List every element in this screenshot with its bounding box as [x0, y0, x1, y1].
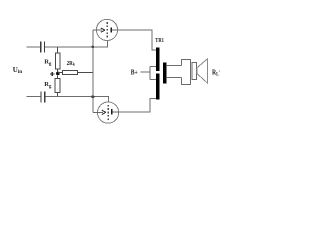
- cathode V2 (left, arrow): [93, 111, 103, 113]
- wire B+ center tap: [140, 66, 156, 79]
- wire secondary to speaker (top): [166, 65, 181, 67]
- svg-text:2Rk: 2Rk: [67, 61, 76, 67]
- transformer TR1 primary winding (upper bar): [156, 47, 160, 71]
- node C (grid rail / cathode line crossing, bottom): [91, 95, 94, 98]
- resistor 2Rk: [58, 70, 93, 74]
- speaker RL' body (outer box, open left): [181, 60, 190, 85]
- transformer TR1 secondary winding: [163, 63, 166, 84]
- node B (junction dot Rg/Rg/2Rk): [56, 72, 60, 76]
- wire top input rail: [27, 46, 41, 48]
- wire top grid rail to tube V1 grid: [45, 41, 108, 48]
- wire V2 plate to transformer primary bottom: [119, 98, 157, 112]
- svg-text:TR1: TR1: [155, 38, 164, 44]
- wire V1 plate to transformer primary top: [118, 30, 157, 50]
- transformer TR1 primary winding (lower bar): [156, 73, 160, 99]
- cathode V1 (left, arrow): [93, 29, 102, 31]
- plate V1 (right bar): [111, 28, 113, 33]
- wire secondary to speaker (bottom): [166, 77, 181, 79]
- plate V2 (right bar): [111, 109, 113, 114]
- wire bottom grid rail to tube V2 grid: [45, 96, 108, 102]
- resistor Rg (bottom): [55, 75, 60, 96]
- node A (grid rail / cathode line crossing, top): [92, 46, 95, 49]
- grid (dashed) V2: [107, 105, 109, 121]
- capacitor C1 (top coupling cap): [40, 42, 45, 53]
- tube V1 (top triode): [93, 19, 118, 40]
- wire bottom input rail: [27, 96, 41, 98]
- tube V2 (bottom triode): [93, 102, 119, 123]
- svg-text:B+: B+: [131, 70, 138, 77]
- grid (dashed) V1: [106, 22, 108, 38]
- resistor Rg (top): [55, 47, 60, 73]
- speaker driver (small rect): [192, 63, 197, 80]
- wire cathode bus (vertical): [92, 30, 94, 112]
- capacitor C2 (bottom coupling cap): [40, 92, 45, 103]
- plus mark at node B: [50, 72, 54, 76]
- speaker cone (triangle): [197, 59, 208, 83]
